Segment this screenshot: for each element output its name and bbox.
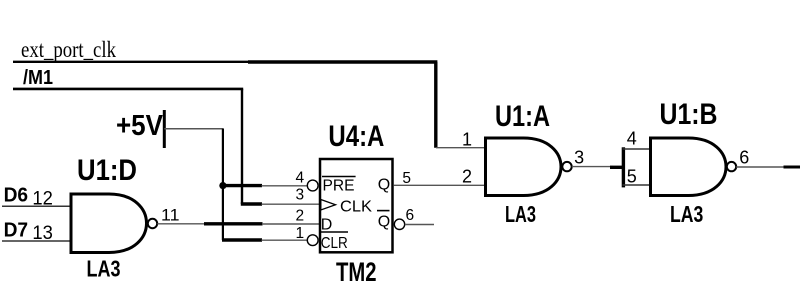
wire D7 to U1:D pin 13 [2, 240, 71, 242]
wire Q pin 5 to U1:A pin 2 [394, 184, 486, 186]
svg-text:D7: D7 [4, 218, 29, 241]
gate U1:D NAND body [71, 194, 147, 253]
wire D6 to U1:D pin 12 [2, 205, 71, 207]
gate U1:B output bubble [727, 162, 736, 171]
wire /M1 thick stub to CLK pin 3 [241, 202, 262, 205]
svg-text:3: 3 [296, 187, 305, 204]
svg-text:U1:D: U1:D [77, 154, 137, 187]
power +5V bar symbol [163, 110, 166, 148]
overline CLR [321, 231, 349, 233]
svg-text:2: 2 [296, 207, 305, 224]
wire bar to U1:B pin 5 [623, 184, 651, 186]
svg-text:ext_port_clk: ext_port_clk [21, 37, 116, 62]
wire Q-bar pin 6 stub [405, 224, 434, 226]
overline Q-bar [377, 210, 390, 212]
input tie bar [622, 147, 625, 187]
wire thick stub to CLR pin 1 [222, 238, 262, 241]
wire thick stub to PRE pin 4 [222, 184, 262, 187]
junction dot [219, 182, 226, 189]
gate U1:B NAND body [651, 138, 727, 196]
svg-text:CLK: CLK [340, 199, 372, 216]
wire U1:B output [736, 166, 785, 168]
CLR input bubble [307, 235, 318, 246]
Q-bar output bubble [394, 219, 404, 229]
svg-text:U1:A: U1:A [495, 100, 550, 133]
wire stub to U1:A pin 1 [436, 147, 486, 149]
wire /M1 horizontal [13, 88, 243, 91]
svg-text:11: 11 [161, 207, 180, 225]
wire ext_port_clk vertical drop to U1:A pin 1 [434, 62, 437, 148]
wire output end thick dash [784, 166, 800, 169]
gate U1:D output bubble [148, 219, 157, 228]
wire U1:A output thick stub [610, 166, 625, 169]
wire /M1 vertical drop [241, 89, 243, 204]
svg-text:2: 2 [462, 166, 472, 186]
gate U1:A output bubble [562, 162, 571, 171]
svg-text:LA3: LA3 [87, 256, 121, 282]
flip-flop U4:A box [320, 159, 393, 252]
wire U1:A output thin [572, 166, 613, 168]
svg-text:5: 5 [402, 170, 411, 187]
wire bar to U1:B pin 4 [623, 148, 651, 150]
svg-text:Q: Q [378, 177, 390, 194]
svg-text:LA3: LA3 [670, 201, 703, 227]
PRE input bubble [307, 180, 318, 191]
wire thin to D pin 2 [262, 223, 320, 225]
wire thin to PRE bubble [262, 185, 308, 187]
svg-text:1: 1 [462, 130, 472, 150]
wire U1:D output thin left [157, 223, 205, 225]
wire ext_port_clk horizontal right thick segment [248, 60, 437, 63]
svg-text:6: 6 [406, 207, 415, 224]
svg-text:5: 5 [627, 167, 637, 187]
wire +5V to vertical [164, 128, 223, 130]
svg-text:TM2: TM2 [336, 257, 377, 287]
CLK triangle [321, 200, 336, 211]
wire vertical +5V rail [222, 129, 224, 240]
svg-text:U1:B: U1:B [660, 98, 718, 131]
wire thin to CLR bubble [262, 239, 308, 241]
svg-text:6: 6 [739, 148, 749, 168]
wire U1:D output thick middle [204, 222, 263, 225]
svg-text:LA3: LA3 [505, 201, 536, 227]
wire ext_port_clk horizontal left segment [13, 61, 250, 63]
wire thin to CLK pin 3 [262, 203, 320, 205]
svg-text:D6: D6 [4, 184, 29, 207]
svg-text:1: 1 [296, 225, 305, 242]
svg-text:4: 4 [296, 170, 305, 187]
svg-text:U4:A: U4:A [328, 120, 384, 153]
svg-text:PRE: PRE [323, 177, 355, 194]
svg-text:CLR: CLR [321, 235, 348, 252]
svg-text:+5V: +5V [116, 110, 164, 142]
overline PRE [322, 176, 356, 178]
svg-text:D: D [321, 216, 333, 233]
svg-text:Q: Q [378, 213, 390, 230]
gate U1:A NAND body [486, 138, 562, 196]
svg-text:/M1: /M1 [23, 66, 53, 89]
svg-text:3: 3 [574, 148, 584, 168]
svg-text:4: 4 [627, 129, 637, 149]
